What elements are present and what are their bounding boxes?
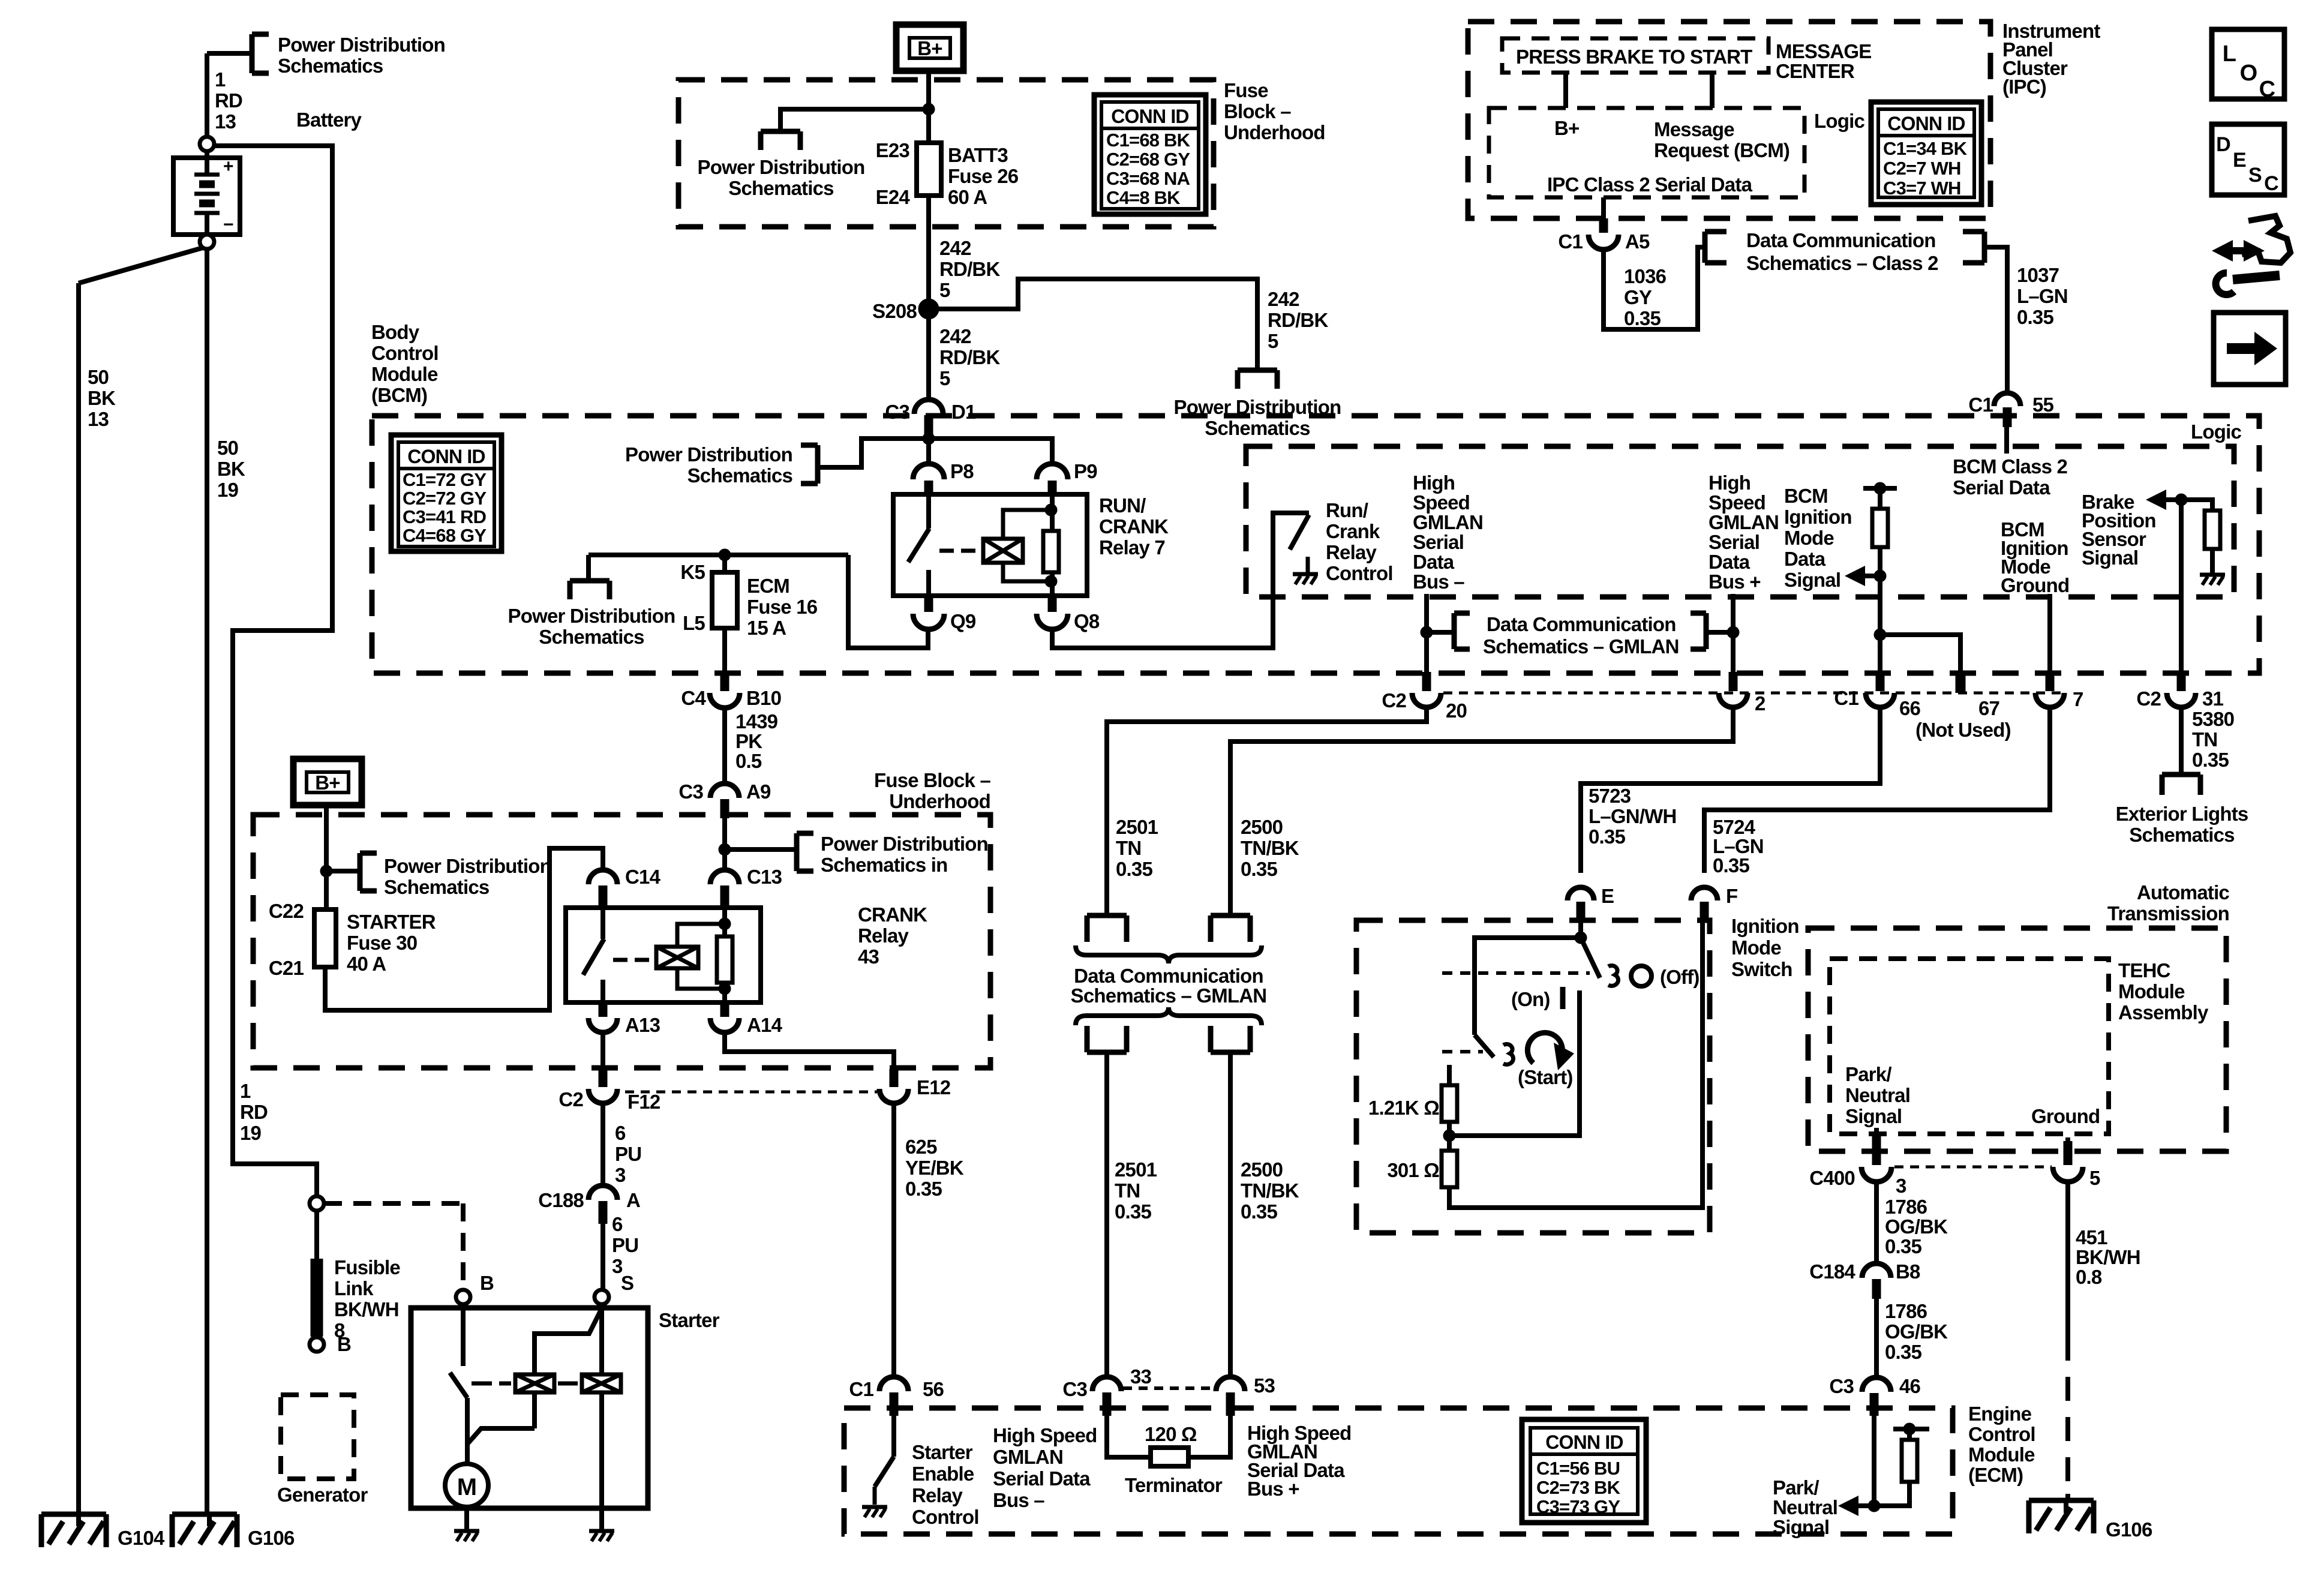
connector E <box>1568 887 1594 920</box>
wire battery positive feed to fusible link <box>214 146 332 1197</box>
BCM ignition mode data signal resistor <box>1863 482 1897 576</box>
svg-text:C1=72 GY: C1=72 GY <box>403 469 487 490</box>
label Logic (IPC) <box>1814 110 1864 132</box>
svg-text:C3=7 WH: C3=7 WH <box>1883 178 1961 199</box>
svg-text:50: 50 <box>217 437 238 459</box>
label 66 <box>1899 697 1921 719</box>
svg-text:Relay 7: Relay 7 <box>1099 536 1165 559</box>
svg-text:Serial: Serial <box>1709 531 1759 553</box>
offpage frame GMLAN lower left <box>1087 1026 1127 1052</box>
starter contact jog <box>467 1428 535 1444</box>
wire message center to logic box <box>1710 73 1715 108</box>
ref bracket class 2 left <box>1705 232 1727 263</box>
wire C1 66 to E <box>1581 707 1880 873</box>
label 7 (connector) <box>2073 688 2083 710</box>
starter motor wire <box>464 1464 469 1531</box>
starter motor ground <box>454 1531 479 1541</box>
ignition switch start contact <box>1503 1044 1514 1064</box>
label F12 <box>627 1091 660 1113</box>
relay CRANK Relay 43 box <box>566 908 761 1002</box>
svg-text:(ECM): (ECM) <box>1968 1464 2023 1486</box>
svg-text:5: 5 <box>939 367 950 389</box>
label Data Communication Schematics - Class 2 <box>1746 229 1938 274</box>
svg-text:1439: 1439 <box>735 710 778 733</box>
starter switch lower wire <box>465 1398 470 1464</box>
label Power Distribution Schematics (ECM fuse) <box>508 605 675 648</box>
svg-text:2500: 2500 <box>1241 1158 1283 1181</box>
wire E12 to C1 56 <box>891 1103 896 1377</box>
svg-text:BK/WH: BK/WH <box>2076 1246 2140 1268</box>
wire A13 to C2 F12 <box>600 1032 605 1069</box>
svg-text:Fusible: Fusible <box>334 1256 400 1278</box>
svg-text:Schematics: Schematics <box>687 464 792 487</box>
starter switch wire <box>461 1304 466 1366</box>
wire battery negative diagonal to G104 drop <box>79 248 203 1514</box>
starter coil A wires <box>535 1308 602 1428</box>
label ECM Fuse 16 15 A <box>747 575 818 639</box>
wire label 242 RD/BK 5 (above S208) <box>939 237 1000 301</box>
crank relay dashes <box>613 958 649 962</box>
svg-text:C3: C3 <box>1829 1375 1854 1397</box>
svg-text:C: C <box>2259 77 2275 102</box>
wire label 2501 TN 0.35 (upper) <box>1116 816 1158 880</box>
node starter S terminal <box>594 1290 609 1304</box>
label MESSAGE CENTER <box>1776 40 1871 82</box>
label 55 <box>2032 394 2054 416</box>
svg-text:Module: Module <box>1968 1443 2035 1466</box>
svg-text:Power Distribution: Power Distribution <box>698 156 865 178</box>
junction below C3 D1 <box>923 433 935 445</box>
svg-text:Fuse 30: Fuse 30 <box>347 932 417 954</box>
pin 67 (not used) <box>1956 672 1966 693</box>
starter box <box>411 1308 648 1508</box>
svg-text:1786: 1786 <box>1885 1300 1927 1322</box>
svg-text:S: S <box>621 1272 633 1294</box>
splice S208 <box>918 299 939 319</box>
connector P8 <box>913 464 944 496</box>
label BCM Class 2 Serial Data <box>1953 455 2068 499</box>
svg-text:242: 242 <box>939 325 971 347</box>
wire label 242 RD/BK 5 (below S208) <box>939 325 1000 389</box>
label Park/ Neutral Signal (ECM) <box>1773 1476 1837 1538</box>
label Power Distribution Schematics (starter fuse) <box>384 855 551 898</box>
svg-text:D: D <box>2216 133 2230 156</box>
svg-text:Schematics: Schematics <box>539 626 644 648</box>
power symbol B+ (second) <box>293 759 362 805</box>
label Terminator <box>1125 1474 1223 1496</box>
wire GMLAN frame to C3 33 <box>1104 1052 1109 1377</box>
label 120 ohm <box>1145 1423 1197 1445</box>
label C188 <box>538 1189 584 1211</box>
svg-text:Neutral: Neutral <box>1845 1084 1910 1106</box>
svg-text:G106: G106 <box>2106 1518 2152 1541</box>
brake position resistor to ground <box>2181 500 2220 575</box>
wire 301 to F <box>1449 920 1703 1208</box>
svg-text:L–GN: L–GN <box>2017 285 2068 307</box>
wire K5 feed junction <box>719 549 731 561</box>
label Engine Control Module (ECM) <box>1968 1403 2035 1486</box>
svg-text:2: 2 <box>1755 692 1765 715</box>
label Park/ Neutral Signal (TEHC) <box>1845 1063 1910 1127</box>
svg-text:1786: 1786 <box>1885 1196 1927 1218</box>
svg-text:Fuse 16: Fuse 16 <box>747 596 818 618</box>
svg-text:IPC Class 2 Serial Data: IPC Class 2 Serial Data <box>1547 173 1753 196</box>
svg-text:1: 1 <box>240 1080 251 1102</box>
svg-text:Schematics: Schematics <box>2129 824 2234 846</box>
svg-text:13: 13 <box>215 110 236 133</box>
svg-text:0.35: 0.35 <box>1241 1200 1277 1223</box>
label B10 <box>746 687 781 709</box>
wire junction to PDS bracket (BCM) <box>818 439 929 467</box>
svg-text:C184: C184 <box>1809 1260 1855 1283</box>
junction S (B+ feed) <box>923 103 935 115</box>
IPC logic dashed box <box>1489 108 1804 197</box>
svg-text:20: 20 <box>1446 700 1467 722</box>
svg-text:Module: Module <box>2118 980 2185 1002</box>
label RUN/ CRANK Relay 7 <box>1099 494 1169 559</box>
label (On) <box>1511 988 1550 1010</box>
svg-text:Engine: Engine <box>1968 1403 2032 1425</box>
wire Q8 to run/crank relay control <box>1052 513 1309 648</box>
resistor 1.21K <box>1442 1065 1457 1136</box>
connector C3 33 <box>1092 1377 1121 1416</box>
svg-text:Run/: Run/ <box>1326 499 1368 521</box>
svg-text:TN: TN <box>1116 837 1141 859</box>
svg-text:Ground: Ground <box>2031 1105 2100 1127</box>
battery B1 plates <box>194 151 220 242</box>
ignition switch dotted line off <box>1442 971 1590 975</box>
svg-text:5: 5 <box>2089 1167 2100 1189</box>
connector C14 <box>588 870 617 909</box>
label C2 (20) <box>1382 689 1406 712</box>
svg-text:60 A: 60 A <box>948 186 987 208</box>
run/crank relay coil <box>983 539 1023 563</box>
svg-text:Link: Link <box>334 1277 374 1299</box>
svg-text:C3=68 NA: C3=68 NA <box>1106 168 1190 189</box>
wire starter fuse to C14 <box>325 848 603 1010</box>
label C22 <box>269 900 304 922</box>
svg-text:L5: L5 <box>683 612 705 634</box>
label Fusible Link BK/WH 8 <box>334 1256 400 1341</box>
svg-text:C2: C2 <box>2136 688 2161 710</box>
wire junction to PDS bracket (fuse block top) <box>780 109 929 131</box>
svg-text:Fuse Block –: Fuse Block – <box>874 769 990 791</box>
connector C400 3 <box>1809 1167 1906 1197</box>
svg-text:Neutral: Neutral <box>1773 1496 1837 1518</box>
ref bracket GMLAN left <box>1454 613 1470 649</box>
svg-text:Starter: Starter <box>659 1309 720 1331</box>
connector row dotted (ECM 33-53) <box>1123 1386 1215 1390</box>
starter S ground <box>589 1531 614 1541</box>
label L5 <box>683 612 705 634</box>
label 1.21K ohm <box>1368 1097 1439 1119</box>
svg-text:(BCM): (BCM) <box>371 384 427 406</box>
wire ECM fuse to C4 B10 <box>722 628 727 672</box>
svg-text:Serial Data: Serial Data <box>993 1467 1091 1490</box>
wire A14 to E12 <box>725 1032 894 1069</box>
junction crank coil bottom <box>719 983 731 995</box>
connector P9 <box>1037 464 1068 496</box>
svg-text:High: High <box>1709 472 1750 494</box>
svg-text:B10: B10 <box>746 687 781 709</box>
svg-text:Q9: Q9 <box>950 610 976 632</box>
ground G106 right <box>2029 1500 2094 1533</box>
wire S208 to C3 D1 <box>926 309 931 400</box>
label IPC Class 2 Serial Data <box>1547 173 1753 196</box>
fuse STARTER Fuse 30 40A <box>314 871 336 967</box>
label A14 <box>747 1014 783 1036</box>
label A (C188) <box>626 1189 640 1211</box>
wire C2 F12 to C188 <box>600 1103 605 1185</box>
label Run/ Crank Relay Control <box>1326 499 1393 584</box>
svg-text:MESSAGE: MESSAGE <box>1776 40 1871 62</box>
label 5380 TN 0.35 <box>2192 708 2234 771</box>
wire K5 horizontal <box>588 555 848 581</box>
svg-text:Battery: Battery <box>296 109 362 131</box>
connector C2 20 <box>1412 672 1441 707</box>
label High Speed GMLAN Serial Data Bus - (BCM) <box>1413 472 1483 593</box>
run/crank relay resistor <box>1043 496 1059 596</box>
svg-text:1: 1 <box>215 68 226 91</box>
svg-text:CRANK: CRANK <box>1099 515 1169 538</box>
label Q8 <box>1074 610 1100 632</box>
svg-text:Body: Body <box>371 321 420 343</box>
svg-text:Ignition: Ignition <box>1784 506 1852 528</box>
ref bracket PDS in <box>797 833 813 871</box>
ignition switch on marker <box>1560 987 1566 1009</box>
wire label 242 RD/BK 5 (right branch) <box>1268 288 1328 352</box>
connector A13 <box>588 1002 617 1032</box>
label Starter Enable Relay Control <box>912 1441 979 1528</box>
svg-text:E: E <box>2233 149 2246 172</box>
svg-text:BK/WH: BK/WH <box>334 1298 399 1320</box>
node fusible link top <box>310 1196 324 1211</box>
ground G104 <box>41 1514 106 1547</box>
junction resistors <box>1443 1130 1455 1142</box>
svg-text:0.5: 0.5 <box>735 750 762 772</box>
BCM dashed box <box>372 416 2259 673</box>
wire junction to GMLAN bracket left <box>1427 630 1454 635</box>
connector row dotted (fuse block 2) <box>625 1091 877 1094</box>
connector 7 <box>2035 672 2064 707</box>
svg-text:S: S <box>2248 164 2262 187</box>
svg-text:GMLAN: GMLAN <box>1413 511 1483 533</box>
svg-text:242: 242 <box>939 237 971 259</box>
svg-text:2500: 2500 <box>1241 816 1283 838</box>
junction data signal arrow <box>1874 570 1886 582</box>
battery B1 box <box>173 158 240 235</box>
svg-text:A9: A9 <box>746 781 771 803</box>
svg-text:E24: E24 <box>876 186 911 208</box>
svg-text:Relay: Relay <box>858 924 909 947</box>
svg-text:Underhood: Underhood <box>889 790 990 812</box>
label Fuse Block - Underhood (second) <box>874 769 990 812</box>
conn id table (IPC) <box>1871 102 1981 205</box>
svg-text:+: + <box>223 157 233 176</box>
label E24 <box>876 186 911 208</box>
svg-text:6: 6 <box>615 1122 626 1144</box>
starter solenoid coil B <box>582 1374 621 1392</box>
label Exterior Lights Schematics <box>2116 803 2248 846</box>
offpage frame GMLAN lower right <box>1211 1026 1250 1052</box>
node battery positive terminal <box>200 137 214 151</box>
svg-text:E23: E23 <box>876 139 910 161</box>
svg-text:Relay: Relay <box>912 1484 963 1506</box>
svg-text:C400: C400 <box>1809 1167 1855 1189</box>
svg-text:19: 19 <box>240 1122 262 1144</box>
svg-text:GMLAN: GMLAN <box>993 1446 1063 1468</box>
label Power Distribution Schematics in <box>821 833 988 876</box>
wire BCM ignition mode ground to 7 <box>2047 594 2052 672</box>
terminator resistor 120 ohm <box>1107 1416 1230 1466</box>
svg-text:C2=7 WH: C2=7 WH <box>1883 158 1961 179</box>
fuse BATT3 Fuse 26 60A <box>917 143 941 196</box>
wire label 2501 TN 0.35 (lower) <box>1115 1158 1157 1223</box>
svg-text:Logic: Logic <box>2191 421 2241 443</box>
svg-text:TN: TN <box>2192 728 2217 751</box>
wire class2 bracket to C1 55 <box>1984 247 2007 392</box>
label 1786 OG/BK 0.35 (lower) <box>1885 1300 1948 1363</box>
svg-text:C1: C1 <box>1834 687 1858 709</box>
starter S wire <box>599 1304 604 1508</box>
svg-text:C2: C2 <box>559 1088 583 1110</box>
svg-text:P8: P8 <box>950 460 974 482</box>
svg-text:C13: C13 <box>747 866 782 888</box>
fusible link FL thick element <box>314 1211 319 1337</box>
wire label 625 YE/BK 0.35 <box>905 1136 964 1200</box>
starter switch blade <box>450 1373 467 1398</box>
svg-text:C1: C1 <box>849 1378 873 1400</box>
ignition switch off blade <box>1581 938 1600 978</box>
svg-text:A: A <box>626 1189 640 1211</box>
generator dashed box <box>281 1395 354 1479</box>
svg-text:PU: PU <box>612 1234 638 1256</box>
svg-text:33: 33 <box>1130 1365 1152 1388</box>
svg-text:0.35: 0.35 <box>1241 858 1277 880</box>
label E23 <box>876 139 910 161</box>
connector C3 46 <box>1862 1377 1891 1416</box>
svg-text:Control: Control <box>912 1506 979 1528</box>
svg-text:(Off): (Off) <box>1660 966 1700 988</box>
junction C13 feed <box>719 843 731 855</box>
svg-text:Data Communication: Data Communication <box>1487 613 1676 635</box>
wire label 6 PU 3 (upper) <box>615 1122 641 1186</box>
svg-text:CENTER: CENTER <box>1776 60 1855 82</box>
svg-text:A14: A14 <box>747 1014 783 1036</box>
arrow BCM ignition mode data signal <box>1845 566 1875 586</box>
svg-text:Power Distribution: Power Distribution <box>384 855 551 877</box>
connector E12 <box>879 1069 908 1103</box>
svg-text:C4=68 GY: C4=68 GY <box>403 525 487 546</box>
svg-text:B+: B+ <box>1554 117 1580 139</box>
starter enable relay control switch <box>875 1416 894 1505</box>
wire to Q9 from K5 line <box>848 555 928 648</box>
svg-text:BK: BK <box>217 458 245 480</box>
connector C4 B10 <box>710 673 740 708</box>
svg-text:Request (BCM): Request (BCM) <box>1654 139 1789 161</box>
label High Speed GMLAN Serial Data Bus - (ECM) <box>993 1424 1097 1511</box>
fuse block underhood box (top) <box>678 80 1214 227</box>
svg-text:3: 3 <box>615 1164 626 1186</box>
svg-text:Power Distribution: Power Distribution <box>508 605 675 627</box>
conn id table (ECM) <box>1522 1419 1646 1523</box>
svg-text:19: 19 <box>217 479 239 501</box>
connector 5 (C400) <box>2053 1167 2100 1189</box>
wire junction to 67 pin <box>1880 635 1960 671</box>
wire label 50 BK 13 <box>88 366 116 430</box>
svg-text:O: O <box>2240 61 2257 86</box>
wire C188 to starter S <box>600 1224 605 1290</box>
label Brake Position Sensor Signal <box>2082 491 2156 569</box>
label B (fusible link) <box>337 1333 351 1355</box>
label G106 left <box>248 1527 295 1549</box>
wire C1 55 into BCM <box>2004 427 2009 454</box>
svg-text:C21: C21 <box>269 957 304 979</box>
connector C2 F12 <box>588 1069 617 1103</box>
svg-text:Ignition: Ignition <box>1731 915 1799 937</box>
label 1786 OG/BK 0.35 (upper) <box>1885 1196 1948 1257</box>
label C1 (66) <box>1834 687 1858 709</box>
svg-text:7: 7 <box>2073 688 2083 710</box>
svg-text:6: 6 <box>612 1213 623 1235</box>
junction run/crank coil top <box>1045 504 1057 516</box>
label A13 <box>625 1014 660 1036</box>
ignition switch dotted line start <box>1442 1050 1483 1053</box>
label 1037 L-GN 0.35 <box>2017 264 2068 328</box>
svg-text:C3: C3 <box>1062 1378 1087 1400</box>
label Ground (TEHC) <box>2031 1105 2100 1127</box>
svg-text:STARTER: STARTER <box>347 911 436 933</box>
label C4 (B10) <box>681 687 706 709</box>
svg-text:(Not Used): (Not Used) <box>1915 719 2011 741</box>
junction crank coil top <box>719 918 731 930</box>
svg-text:B+: B+ <box>917 37 942 59</box>
label D1 <box>951 401 976 423</box>
svg-text:Bus +: Bus + <box>1709 571 1761 593</box>
svg-text:451: 451 <box>2076 1226 2107 1248</box>
wire bracket to Bus+ <box>1706 630 1733 635</box>
IPC dashed box <box>1468 22 1990 218</box>
connector C1 55 <box>1994 393 2020 427</box>
ignition switch off contact <box>1608 965 1619 986</box>
brace GMLAN lower <box>1076 1007 1262 1025</box>
junction 66/67 <box>1874 629 1886 641</box>
connector row dotted (BCM) <box>1443 692 2064 695</box>
svg-text:PK: PK <box>735 730 762 752</box>
svg-text:TN/BK: TN/BK <box>1241 837 1299 859</box>
svg-text:C3=73 GY: C3=73 GY <box>1536 1496 1620 1517</box>
ref bracket class 2 right <box>1963 232 1984 263</box>
svg-text:Schematics – GMLAN: Schematics – GMLAN <box>1071 984 1267 1007</box>
svg-text:1037: 1037 <box>2017 264 2059 286</box>
ignition switch start branch <box>1475 938 1581 1035</box>
svg-text:0.8: 0.8 <box>2076 1266 2102 1288</box>
label G104 <box>118 1527 165 1549</box>
svg-text:RD/BK: RD/BK <box>939 258 1000 280</box>
svg-text:Starter: Starter <box>912 1441 973 1463</box>
svg-text:C2: C2 <box>1382 689 1406 712</box>
wire fuse to S208 <box>926 196 931 300</box>
svg-text:Logic: Logic <box>1814 110 1864 132</box>
label Starter <box>659 1309 720 1331</box>
label BCM Ignition Mode Ground <box>2001 518 2069 596</box>
label Generator <box>277 1484 368 1506</box>
svg-text:CONN ID: CONN ID <box>407 446 485 467</box>
resistor 301 <box>1442 1136 1457 1187</box>
battery plus sign <box>223 157 233 176</box>
wire label 1 RD 19 <box>240 1080 268 1144</box>
svg-text:43: 43 <box>858 945 879 968</box>
